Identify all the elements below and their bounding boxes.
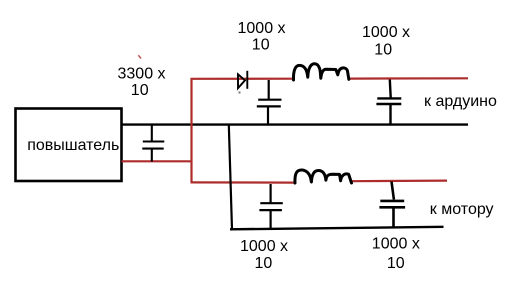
wire: red top rail left segment <box>191 78 295 80</box>
inductor L1 <box>293 64 348 80</box>
svg-text:1000 x: 1000 x <box>372 236 420 253</box>
svg-text:к мотору: к мотору <box>430 201 494 218</box>
svg-text:1000 x: 1000 x <box>238 20 286 37</box>
speck under diode <box>239 92 241 94</box>
wire: red vertical bus <box>190 78 192 183</box>
booster box (повышатель) <box>16 109 122 182</box>
wire: black bottom rail <box>230 227 444 230</box>
svg-text:1000 x: 1000 x <box>362 24 410 41</box>
svg-text:10: 10 <box>252 37 270 54</box>
svg-text:10: 10 <box>131 82 149 99</box>
svg-text:1000 x: 1000 x <box>240 238 288 255</box>
capacitor C5 (bottom, 1000x10 right) <box>379 182 405 228</box>
svg-text:к ардуино: к ардуино <box>424 93 497 110</box>
diode D1 <box>238 71 247 89</box>
svg-text:10: 10 <box>255 255 273 272</box>
inductor L2 <box>295 170 352 183</box>
capacitor C3 (top, 1000x10 right) <box>376 80 401 125</box>
red speck <box>138 55 141 58</box>
svg-text:3300 x: 3300 x <box>118 66 166 83</box>
capacitor C4 (bottom, 1000x10 left) <box>259 184 282 229</box>
wire: red bottom rail left segment <box>191 181 297 183</box>
svg-text:10: 10 <box>374 42 392 59</box>
svg-text:10: 10 <box>387 255 405 272</box>
wire: red top rail right segment <box>350 77 469 79</box>
wire: black mid rail from box to right <box>122 123 469 125</box>
wire: red output from box <box>122 160 193 162</box>
wire: black branch vertical <box>229 125 232 230</box>
capacitor C2 (top, 1000x10 left) <box>257 80 282 125</box>
svg-text:повышатель: повышатель <box>27 137 119 154</box>
capacitor C1 3300x10 <box>142 125 164 162</box>
wire: red bottom rail right segment <box>352 180 448 183</box>
